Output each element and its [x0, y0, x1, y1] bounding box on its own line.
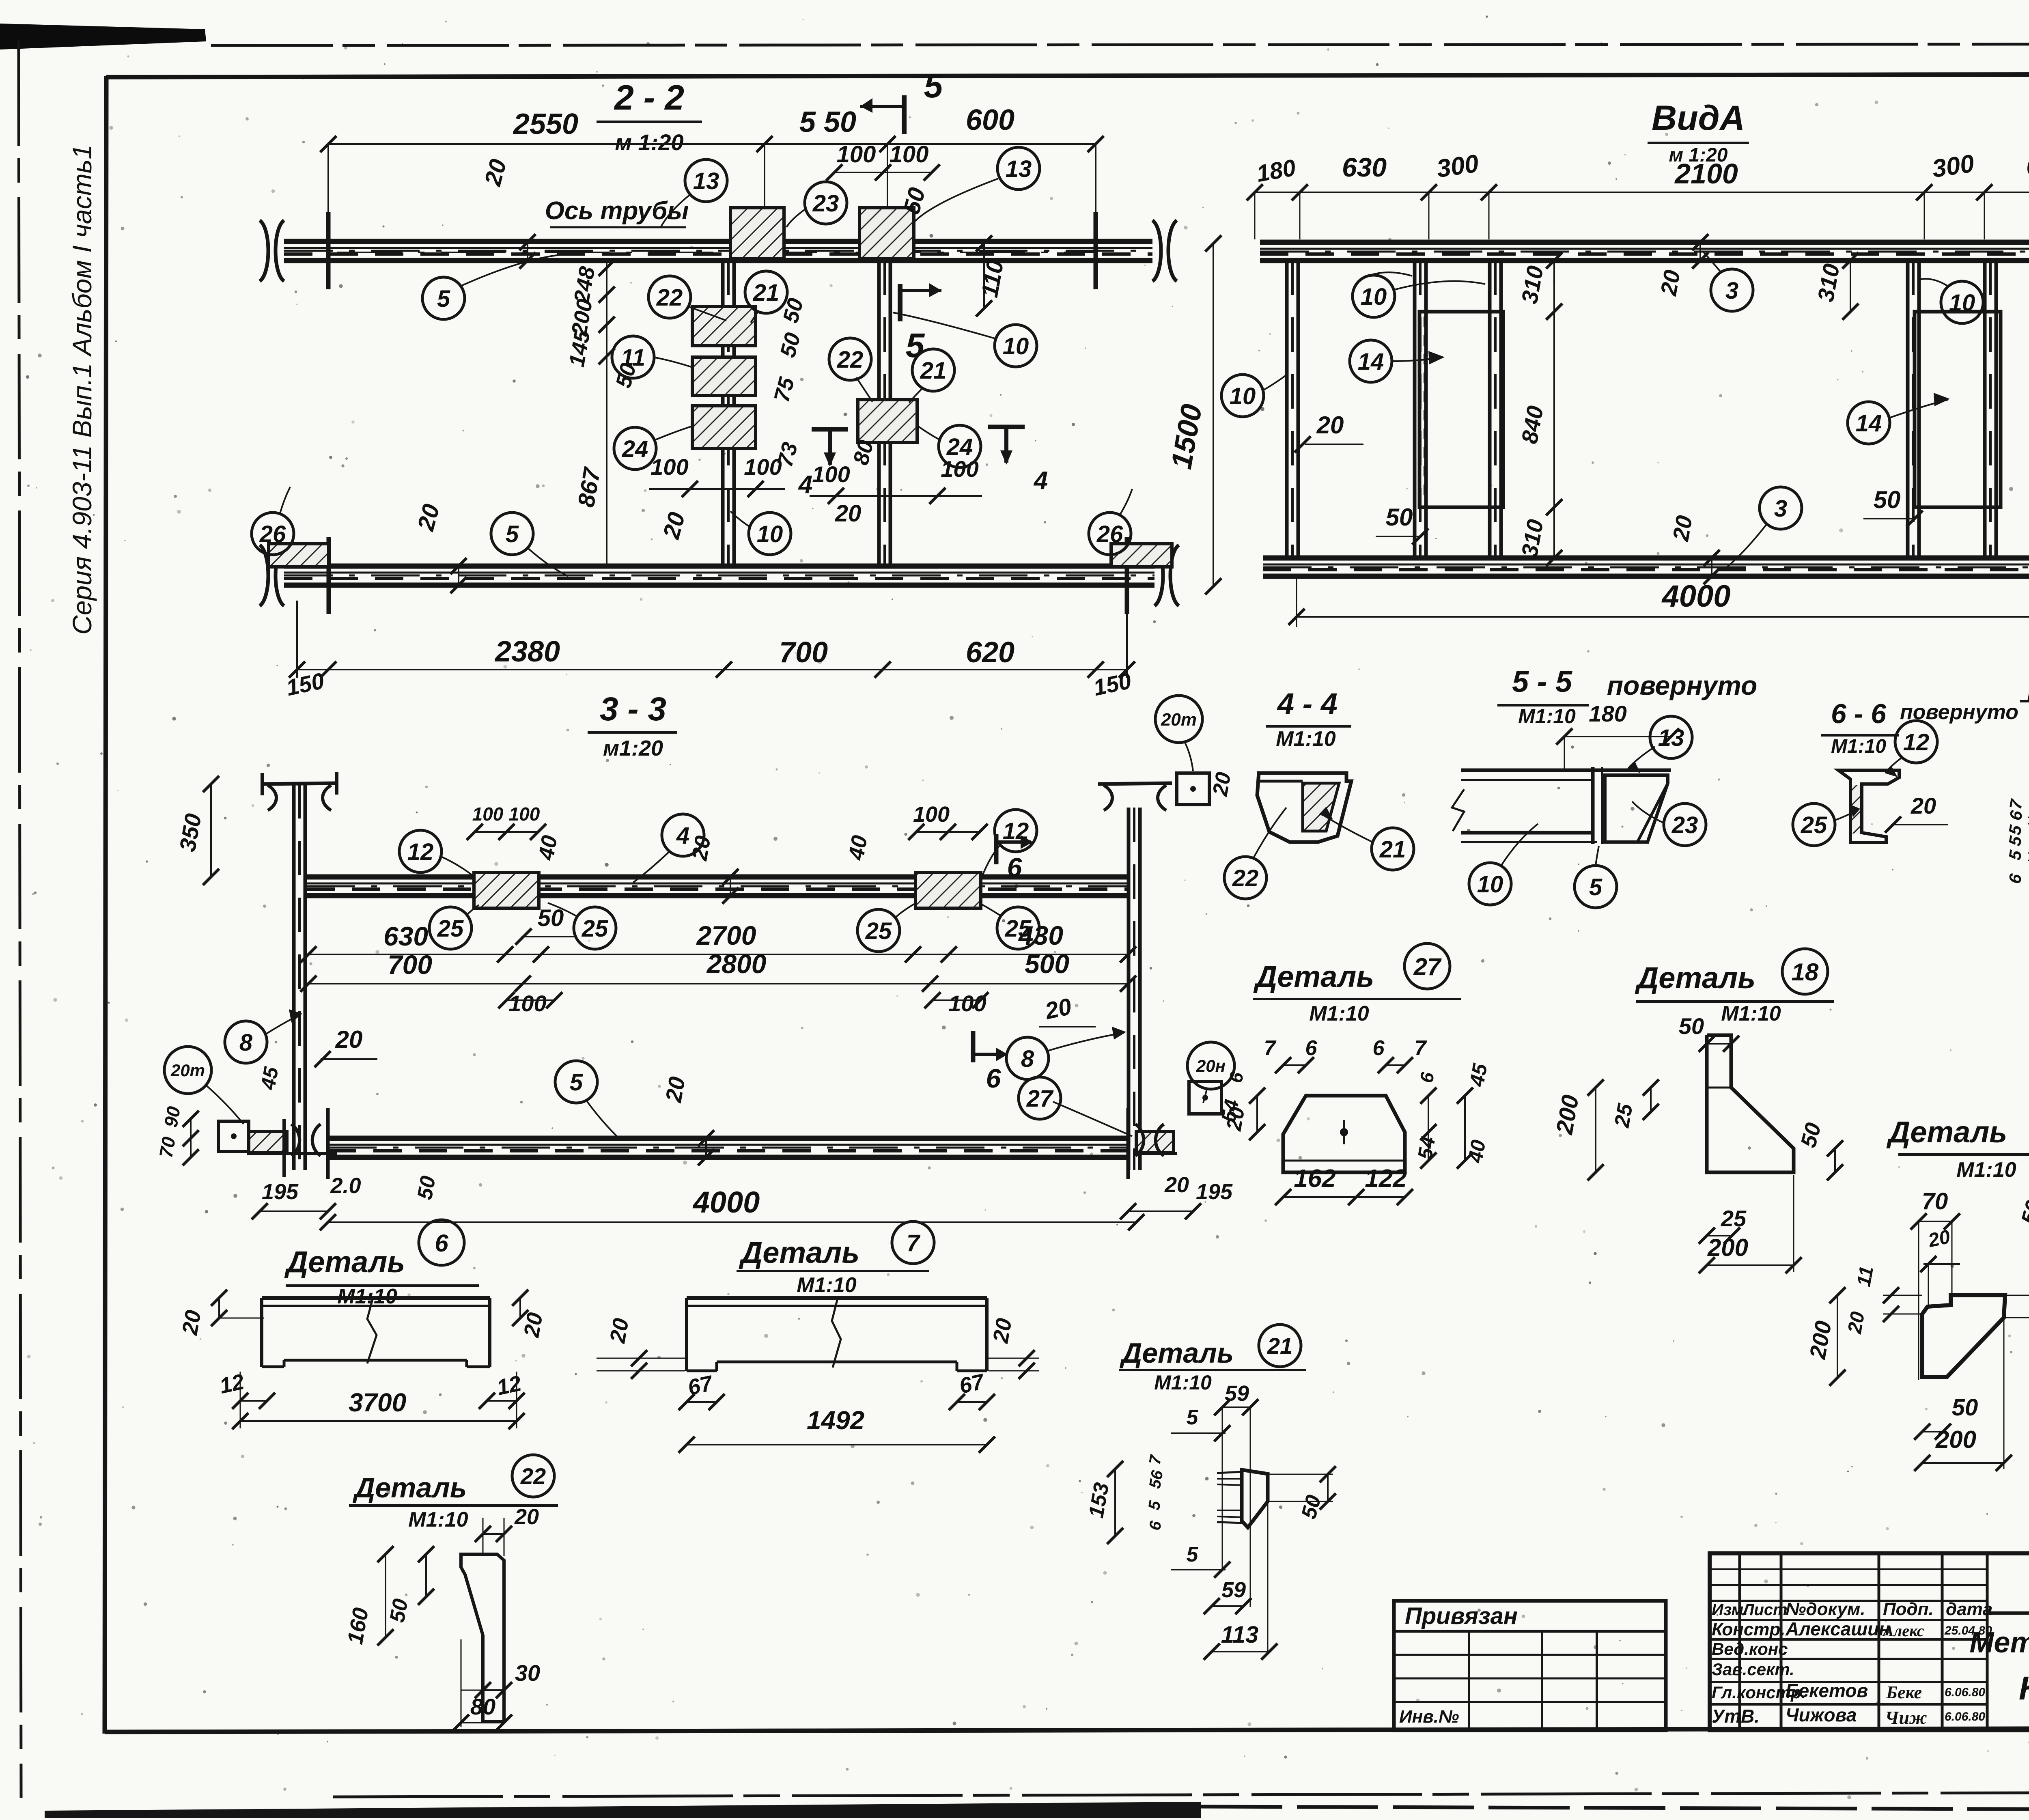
- svg-text:20н: 20н: [1196, 1056, 1226, 1075]
- svg-text:20: 20: [1316, 411, 1344, 439]
- svg-text:630: 630: [2026, 151, 2029, 181]
- svg-text:10: 10: [1361, 284, 1387, 310]
- detail 4-4 drawing: [1257, 773, 1351, 842]
- svg-text:300: 300: [1435, 149, 1480, 183]
- view A callout 10 top left pair: [1353, 275, 1395, 317]
- detail 21 drawing: [1242, 1470, 1268, 1527]
- detail 5-5 callout 5: [1575, 866, 1617, 908]
- 3-3 dim 100 100 above left plate: [475, 831, 538, 833]
- svg-text:6 - 6: 6 - 6: [1831, 698, 1887, 729]
- svg-text:М1:10: М1:10: [408, 1508, 468, 1531]
- 3-3 dim 100 above right plate: [916, 831, 980, 833]
- 3-3 callout 5 bottom beam: [555, 1061, 597, 1103]
- svg-text:5: 5: [570, 1069, 583, 1096]
- svg-text:20: 20: [1208, 770, 1236, 798]
- view A post right pair b: [1983, 261, 1987, 558]
- svg-text:4: 4: [1033, 467, 1048, 495]
- svg-text:повернуто: повернуто: [1607, 670, 1758, 700]
- svg-text:Чижова: Чижова: [1786, 1704, 1857, 1725]
- svg-text:М1:10: М1:10: [1956, 1158, 2016, 1182]
- inner frame bottom line: [105, 1728, 2029, 1732]
- view A dim 310 left lower: [1553, 507, 1555, 558]
- bottom black scan bar: [45, 1802, 1201, 1818]
- svg-text:22: 22: [656, 284, 683, 311]
- svg-text:100: 100: [744, 454, 782, 480]
- detail 5-5 callout 13: [1650, 716, 1692, 758]
- 3-3 dim 350 rotated: [210, 784, 212, 877]
- svg-text:Бекетов: Бекетов: [1786, 1680, 1868, 1701]
- detail 5-5 break mark: [1452, 789, 1464, 831]
- svg-text:26: 26: [259, 521, 286, 547]
- svg-text:70: 70: [155, 1135, 179, 1159]
- svg-text:4: 4: [676, 823, 689, 849]
- svg-text:50: 50: [1952, 1394, 1978, 1421]
- black scan bar top-left: [0, 24, 206, 50]
- svg-text:20: 20: [660, 1075, 690, 1104]
- callout 24 left: [614, 427, 656, 470]
- 3-3 top beam 4: [306, 874, 1127, 880]
- svg-text:7: 7: [1415, 1036, 1427, 1060]
- svg-text:45: 45: [256, 1065, 283, 1092]
- 3-3 callout 12 right: [995, 810, 1037, 852]
- svg-text:20: 20: [1164, 1173, 1189, 1197]
- svg-text:20: 20: [988, 1316, 1017, 1345]
- svg-text:40: 40: [534, 834, 562, 862]
- title block mini rows top: [1710, 1568, 1987, 1570]
- view A callout 3 bottom: [1760, 487, 1802, 529]
- svg-text:13: 13: [1658, 725, 1684, 751]
- 3-3 callout 8 right: [1006, 1037, 1049, 1079]
- svg-text:2.0: 2.0: [330, 1174, 361, 1198]
- title block doc number cell: [1987, 1611, 2029, 1615]
- view A post right pair a: [1906, 261, 1910, 558]
- svg-text:УтВ.: УтВ.: [1712, 1706, 1760, 1727]
- view A bottom beam: [1263, 556, 2029, 561]
- detail 5-5 gusset with chamfer: [1605, 775, 1668, 842]
- svg-text:20: 20: [1926, 1226, 1952, 1251]
- svg-text:6: 6: [1305, 1036, 1318, 1060]
- svg-text:21: 21: [1379, 836, 1406, 863]
- svg-text:6: 6: [1373, 1036, 1385, 1060]
- 3-3 right column: [1127, 808, 1131, 1170]
- callout 26 right: [1089, 513, 1131, 555]
- svg-text:1492: 1492: [807, 1406, 864, 1435]
- svg-text:Деталь: Деталь: [1886, 1115, 2007, 1149]
- svg-text:5: 5: [1187, 1406, 1199, 1429]
- view A post far left: [1285, 261, 1289, 558]
- view A callout 14 left: [1350, 340, 1392, 382]
- svg-text:70: 70: [1922, 1188, 1948, 1215]
- svg-text:3 - 3: 3 - 3: [600, 691, 666, 728]
- svg-text:630: 630: [383, 921, 428, 951]
- 3-3 bottom beam 5: [328, 1136, 1128, 1141]
- svg-text:6: 6: [986, 1063, 1002, 1093]
- svg-text:Беке: Беке: [1886, 1682, 1922, 1702]
- svg-text:21: 21: [920, 358, 947, 384]
- detail 6-6 callout 25: [1793, 803, 1835, 846]
- svg-text:30: 30: [515, 1660, 540, 1686]
- svg-text:5: 5: [437, 286, 450, 312]
- 3-3 callout 27: [1019, 1077, 1061, 1119]
- svg-text:162: 162: [1294, 1165, 1335, 1193]
- svg-text:КБДПУ-15-20: КБДПУ-15-20: [2019, 1670, 2029, 1707]
- svg-text:М1:10: М1:10: [1309, 1002, 1369, 1025]
- svg-text:14: 14: [1358, 349, 1384, 375]
- svg-text:12: 12: [495, 1371, 523, 1400]
- callout 10 bottom: [749, 513, 791, 555]
- weld symbol T right with 4: [988, 425, 1025, 429]
- svg-text:26: 26: [1096, 521, 1123, 547]
- svg-text:12: 12: [218, 1370, 246, 1398]
- svg-text:Привязан: Привязан: [1405, 1603, 1518, 1629]
- detail 21 extension lines: [1222, 1409, 1223, 1570]
- view A bottom dim 4000: [1297, 616, 2029, 618]
- 3-3 callout 25 c: [857, 909, 900, 952]
- svg-text:25: 25: [582, 915, 608, 942]
- svg-text:Зав.сект.: Зав.сект.: [1712, 1660, 1794, 1679]
- svg-text:700: 700: [779, 636, 828, 669]
- svg-text:М1:10: М1:10: [797, 1273, 856, 1297]
- svg-text:Металлоконструкция: Металлоконструкция: [1969, 1626, 2029, 1659]
- outer top border line: [211, 44, 2029, 45]
- svg-text:100: 100: [913, 802, 950, 827]
- svg-text:13: 13: [693, 168, 719, 194]
- svg-text:м1:20: м1:20: [603, 736, 663, 760]
- detail 7 drawing channel: [687, 1296, 987, 1300]
- svg-text:90: 90: [160, 1105, 184, 1129]
- svg-text:2700: 2700: [696, 920, 756, 950]
- svg-text:21: 21: [1267, 1333, 1292, 1359]
- svg-text:25: 25: [1610, 1101, 1638, 1129]
- svg-text:25: 25: [865, 918, 892, 944]
- dim 110 rotated: [983, 243, 985, 308]
- svg-text:дата: дата: [1946, 1599, 1992, 1619]
- svg-text:11: 11: [1853, 1264, 1878, 1288]
- 3-3 bottom dim 4000: [328, 1221, 1136, 1223]
- svg-text:23: 23: [1671, 812, 1698, 838]
- svg-text:5: 5: [1589, 874, 1603, 900]
- dim line bottom 150-2380-700-620-150: [297, 669, 1127, 670]
- svg-text:2100: 2100: [1674, 158, 1738, 190]
- 3-3 callout 25 b: [574, 907, 616, 949]
- 3-3 callout 20т far right: [1187, 1042, 1234, 1089]
- callout 22 right: [829, 338, 871, 380]
- title block row lines: [1710, 1600, 1987, 1602]
- svg-text:23: 23: [812, 190, 839, 217]
- svg-text:40: 40: [844, 834, 872, 862]
- 3-3 callout 25 d: [997, 907, 1039, 949]
- svg-text:80: 80: [470, 1694, 495, 1719]
- svg-text:25: 25: [1801, 812, 1827, 838]
- svg-text:Изм.: Изм.: [1712, 1601, 1748, 1619]
- view A plate 14 left: [1419, 312, 1503, 507]
- svg-text:м 1:20: м 1:20: [615, 129, 683, 155]
- svg-text:10: 10: [757, 521, 783, 547]
- svg-text:430: 430: [1018, 920, 1063, 950]
- svg-text:27: 27: [1026, 1086, 1054, 1112]
- view A plate 14 right: [1915, 312, 2001, 507]
- pipe axis line: [337, 252, 1096, 253]
- beam 2-2 bottom chord: [284, 564, 1155, 569]
- svg-text:100: 100: [948, 991, 986, 1016]
- svg-text:5: 5: [924, 67, 943, 105]
- vertical extension with dims 248 200 145: [606, 260, 607, 566]
- svg-text:50: 50: [1386, 504, 1413, 531]
- beam 2-2 top chord: [284, 239, 1152, 244]
- svg-text:630: 630: [1342, 152, 1387, 182]
- svg-text:М1:10: М1:10: [1154, 1371, 1212, 1394]
- svg-text:20: 20: [514, 1505, 539, 1529]
- svg-text:Деталь: Деталь: [1253, 960, 1374, 993]
- svg-text:50: 50: [1874, 486, 1901, 513]
- 3-3 right column top end symbol: [1098, 783, 1172, 784]
- dim 100 100 above right plate: [834, 172, 932, 173]
- svg-text:100: 100: [509, 803, 540, 825]
- svg-text:18: 18: [1792, 958, 1819, 986]
- svg-text:100: 100: [472, 803, 504, 825]
- svg-text:21: 21: [753, 280, 780, 306]
- svg-text:200: 200: [1935, 1426, 1976, 1453]
- top chord left end plate: [326, 212, 331, 289]
- svg-text:20: 20: [1043, 993, 1074, 1024]
- svg-text:7: 7: [907, 1230, 921, 1256]
- svg-text:25: 25: [437, 915, 464, 942]
- svg-text:12: 12: [1003, 818, 1029, 844]
- bottom chord right end: [1125, 537, 1129, 614]
- 3-3 callout 8 left: [225, 1021, 267, 1063]
- svg-text:Деталь: Деталь: [1635, 961, 1755, 995]
- view A dim 310 right rotated: [1850, 261, 1851, 312]
- svg-text:54: 54: [1413, 1135, 1440, 1161]
- svg-text:8: 8: [1021, 1046, 1034, 1072]
- svg-text:4: 4: [798, 471, 812, 499]
- section flag 5 top: [902, 95, 907, 134]
- svg-text:20т: 20т: [170, 1061, 205, 1080]
- detail 21 lamination lines: [1217, 1472, 1242, 1473]
- svg-text:Подп.: Подп.: [1883, 1599, 1934, 1619]
- title block outer box: [1710, 1553, 2029, 1730]
- 3-3 dim row 700 2800 500: [308, 983, 1128, 984]
- svg-text:Серия 4.903-11 Вып.1 Альбом I: Серия 4.903-11 Вып.1 Альбом I часть1: [67, 144, 97, 635]
- bottom scan thin line right: [1201, 1807, 2029, 1811]
- svg-text:6.06.80: 6.06.80: [1945, 1686, 1985, 1699]
- callout 21 left: [745, 271, 787, 313]
- svg-text:20: 20: [1844, 1310, 1869, 1335]
- svg-text:М1:10: М1:10: [1721, 1002, 1781, 1025]
- svg-text:10: 10: [1003, 333, 1029, 360]
- detail 6-6 drawing channel: [1838, 770, 1899, 842]
- svg-text:195: 195: [262, 1180, 299, 1204]
- post 10 right of section 2-2: [877, 261, 881, 566]
- svg-text:5: 5: [1187, 1543, 1199, 1566]
- svg-text:20: 20: [1655, 268, 1685, 297]
- svg-text:500: 500: [1025, 949, 1069, 979]
- svg-text:10: 10: [1949, 290, 1975, 316]
- view A callout 10 far left: [1221, 375, 1264, 417]
- inner frame top line: [106, 74, 2029, 77]
- svg-text:22: 22: [520, 1463, 546, 1489]
- callout 13 left: [685, 159, 727, 202]
- detail 19 drawing: [1922, 1295, 2005, 1377]
- callout 24 right: [939, 425, 981, 467]
- 3-3 callout 25 a: [429, 907, 472, 949]
- 3-3 bottom right corner assembly: [1136, 1131, 1174, 1152]
- svg-text:Чиж: Чиж: [1885, 1707, 1927, 1728]
- svg-text:59: 59: [1221, 1578, 1246, 1602]
- svg-text:20: 20: [687, 834, 715, 863]
- svg-text:Ось трубы: Ось трубы: [545, 197, 689, 225]
- svg-text:4 - 4: 4 - 4: [1277, 687, 1338, 721]
- view A post left pair a: [1413, 261, 1417, 558]
- callout 13 right: [997, 147, 1040, 190]
- stiffener plates 22/11/24 on left post: [692, 306, 756, 346]
- view A callout 14 right: [1848, 402, 1890, 444]
- svg-text:Деталь: Деталь: [353, 1472, 467, 1503]
- detail 4-4 callout 21: [1372, 828, 1414, 870]
- svg-text:6.06.80: 6.06.80: [1945, 1710, 1985, 1723]
- svg-text:Инв.№: Инв.№: [1399, 1707, 1459, 1727]
- svg-text:24: 24: [622, 436, 648, 462]
- 3-3 callout 20т left bottom: [164, 1047, 211, 1094]
- view A callout 3 top: [1711, 269, 1753, 311]
- svg-text:20: 20: [1667, 513, 1697, 543]
- svg-text:620: 620: [966, 636, 1014, 669]
- svg-text:700: 700: [388, 950, 432, 980]
- 3-3 callout 20т top right: [1155, 696, 1202, 743]
- svg-text:Деталь: Деталь: [1120, 1337, 1234, 1369]
- bottom chord left pad 26: [269, 544, 329, 567]
- svg-text:3: 3: [1774, 495, 1787, 522]
- dim line 2550-550-600: [328, 143, 1096, 145]
- bottom chord left end: [327, 537, 331, 614]
- svg-text:5 - 5: 5 - 5: [1512, 665, 1573, 698]
- 3-3 left column top end symbol: [262, 783, 337, 784]
- svg-text:27: 27: [1413, 953, 1442, 980]
- svg-text:113: 113: [1221, 1622, 1258, 1648]
- svg-text:13: 13: [1006, 156, 1032, 182]
- svg-text:50: 50: [413, 1174, 440, 1201]
- svg-text:50: 50: [1679, 1013, 1704, 1039]
- 3-3 gusset plate right on beam: [915, 872, 981, 908]
- svg-text:М1:10: М1:10: [1831, 736, 1886, 757]
- svg-text:2800: 2800: [706, 949, 767, 979]
- svg-text:54: 54: [1217, 1098, 1243, 1124]
- post 10 left of section 2-2: [721, 261, 725, 566]
- svg-text:50: 50: [386, 1597, 413, 1624]
- svg-text:22: 22: [1232, 865, 1259, 892]
- svg-text:40: 40: [1464, 1138, 1490, 1165]
- svg-text:№докум.: №докум.: [1786, 1599, 1865, 1619]
- svg-text:20: 20: [835, 500, 862, 527]
- svg-text:50: 50: [538, 905, 564, 931]
- svg-text:2550: 2550: [513, 108, 578, 140]
- callout 26 left: [252, 513, 294, 555]
- detail 7 break mark: [832, 1297, 841, 1368]
- svg-text:2 - 2: 2 - 2: [614, 78, 684, 117]
- detail 4-4 callout 22: [1224, 857, 1267, 899]
- svg-text:12: 12: [1903, 729, 1930, 756]
- svg-text:5 50: 5 50: [799, 106, 856, 138]
- weld symbol T left with 4: [812, 427, 848, 432]
- bottom chord right pad 26: [1111, 544, 1172, 567]
- svg-text:ВидА: ВидА: [1652, 99, 1745, 138]
- svg-text:6: 6: [435, 1230, 448, 1257]
- svg-text:4000: 4000: [692, 1185, 760, 1219]
- svg-text:20: 20: [177, 1308, 206, 1337]
- section flag 5 lower: [898, 284, 902, 321]
- gusset plate 23 on right post top: [859, 208, 914, 259]
- svg-text:24: 24: [946, 434, 973, 460]
- svg-text:12: 12: [407, 839, 434, 865]
- view A post left pair b: [1488, 261, 1492, 558]
- svg-text:4000: 4000: [1661, 579, 1730, 614]
- privyazan table: [1394, 1601, 1666, 1730]
- svg-text:Деталь: Деталь: [284, 1245, 405, 1279]
- view A top dim chain 180-630-300-2100-300-630-180: [1255, 192, 2029, 193]
- svg-text:195: 195: [1196, 1180, 1233, 1204]
- svg-text:20: 20: [605, 1316, 633, 1345]
- 3-3 callout 12 left: [399, 830, 442, 872]
- 3-3 section flag 6 upper: [994, 834, 999, 864]
- 3-3 dim row 630 2700 430: [308, 954, 1128, 955]
- svg-text:Деталь: Деталь: [739, 1236, 859, 1269]
- inner frame left line: [105, 76, 106, 1734]
- view A top beam: [1260, 240, 2029, 245]
- svg-text:11: 11: [621, 345, 645, 371]
- svg-text:122: 122: [1365, 1165, 1407, 1193]
- svg-text:2380: 2380: [494, 635, 560, 668]
- callout 10 mid: [995, 325, 1037, 367]
- svg-text:3700: 3700: [349, 1388, 406, 1417]
- top chord right end plate: [1094, 212, 1098, 289]
- detail 5-5 callout 23: [1664, 803, 1706, 846]
- svg-text:10: 10: [1477, 871, 1503, 898]
- svg-text:100: 100: [650, 454, 688, 480]
- svg-text:Лист: Лист: [1742, 1601, 1788, 1619]
- svg-text:5: 5: [506, 521, 519, 547]
- callout 5 bottom: [491, 513, 533, 555]
- svg-text:8: 8: [239, 1030, 253, 1056]
- callout 23: [805, 182, 847, 224]
- svg-text:Алексашин: Алексашин: [1785, 1618, 1890, 1639]
- svg-text:20: 20: [335, 1026, 363, 1053]
- detail 18 drawing: [1707, 1035, 1794, 1172]
- svg-text:3: 3: [1725, 278, 1738, 304]
- svg-text:22: 22: [837, 347, 864, 373]
- svg-text:Алекс: Алекс: [1882, 1622, 1924, 1640]
- detail 6 drawing channel: [262, 1296, 490, 1300]
- svg-text:56: 56: [1146, 1469, 1167, 1490]
- svg-text:М1:10: М1:10: [1276, 727, 1335, 751]
- detail 27 drawing trapezoid: [1283, 1096, 1405, 1172]
- detail 22 drawing: [461, 1554, 504, 1721]
- view A dim 310 left rotated: [1553, 261, 1555, 312]
- detail 6-6 callout 12: [1895, 721, 1937, 763]
- svg-text:М1:10: М1:10: [1518, 705, 1576, 728]
- svg-text:20: 20: [1911, 793, 1936, 818]
- svg-text:6: 6: [1007, 852, 1023, 882]
- 3-3 gusset plate left on beam: [474, 872, 539, 908]
- view A callout 10 right pair: [1941, 281, 1983, 323]
- gusset plate 23 on left post top: [730, 208, 784, 259]
- svg-text:20т: 20т: [1161, 710, 1197, 730]
- 3-3 left column: [292, 784, 296, 1170]
- svg-text:100: 100: [837, 141, 876, 168]
- 3-3 section flag 6 lower: [971, 1031, 976, 1062]
- detail 6 break mark: [367, 1297, 377, 1363]
- svg-text:180: 180: [1589, 701, 1626, 726]
- outer left border dashed line: [19, 41, 21, 1798]
